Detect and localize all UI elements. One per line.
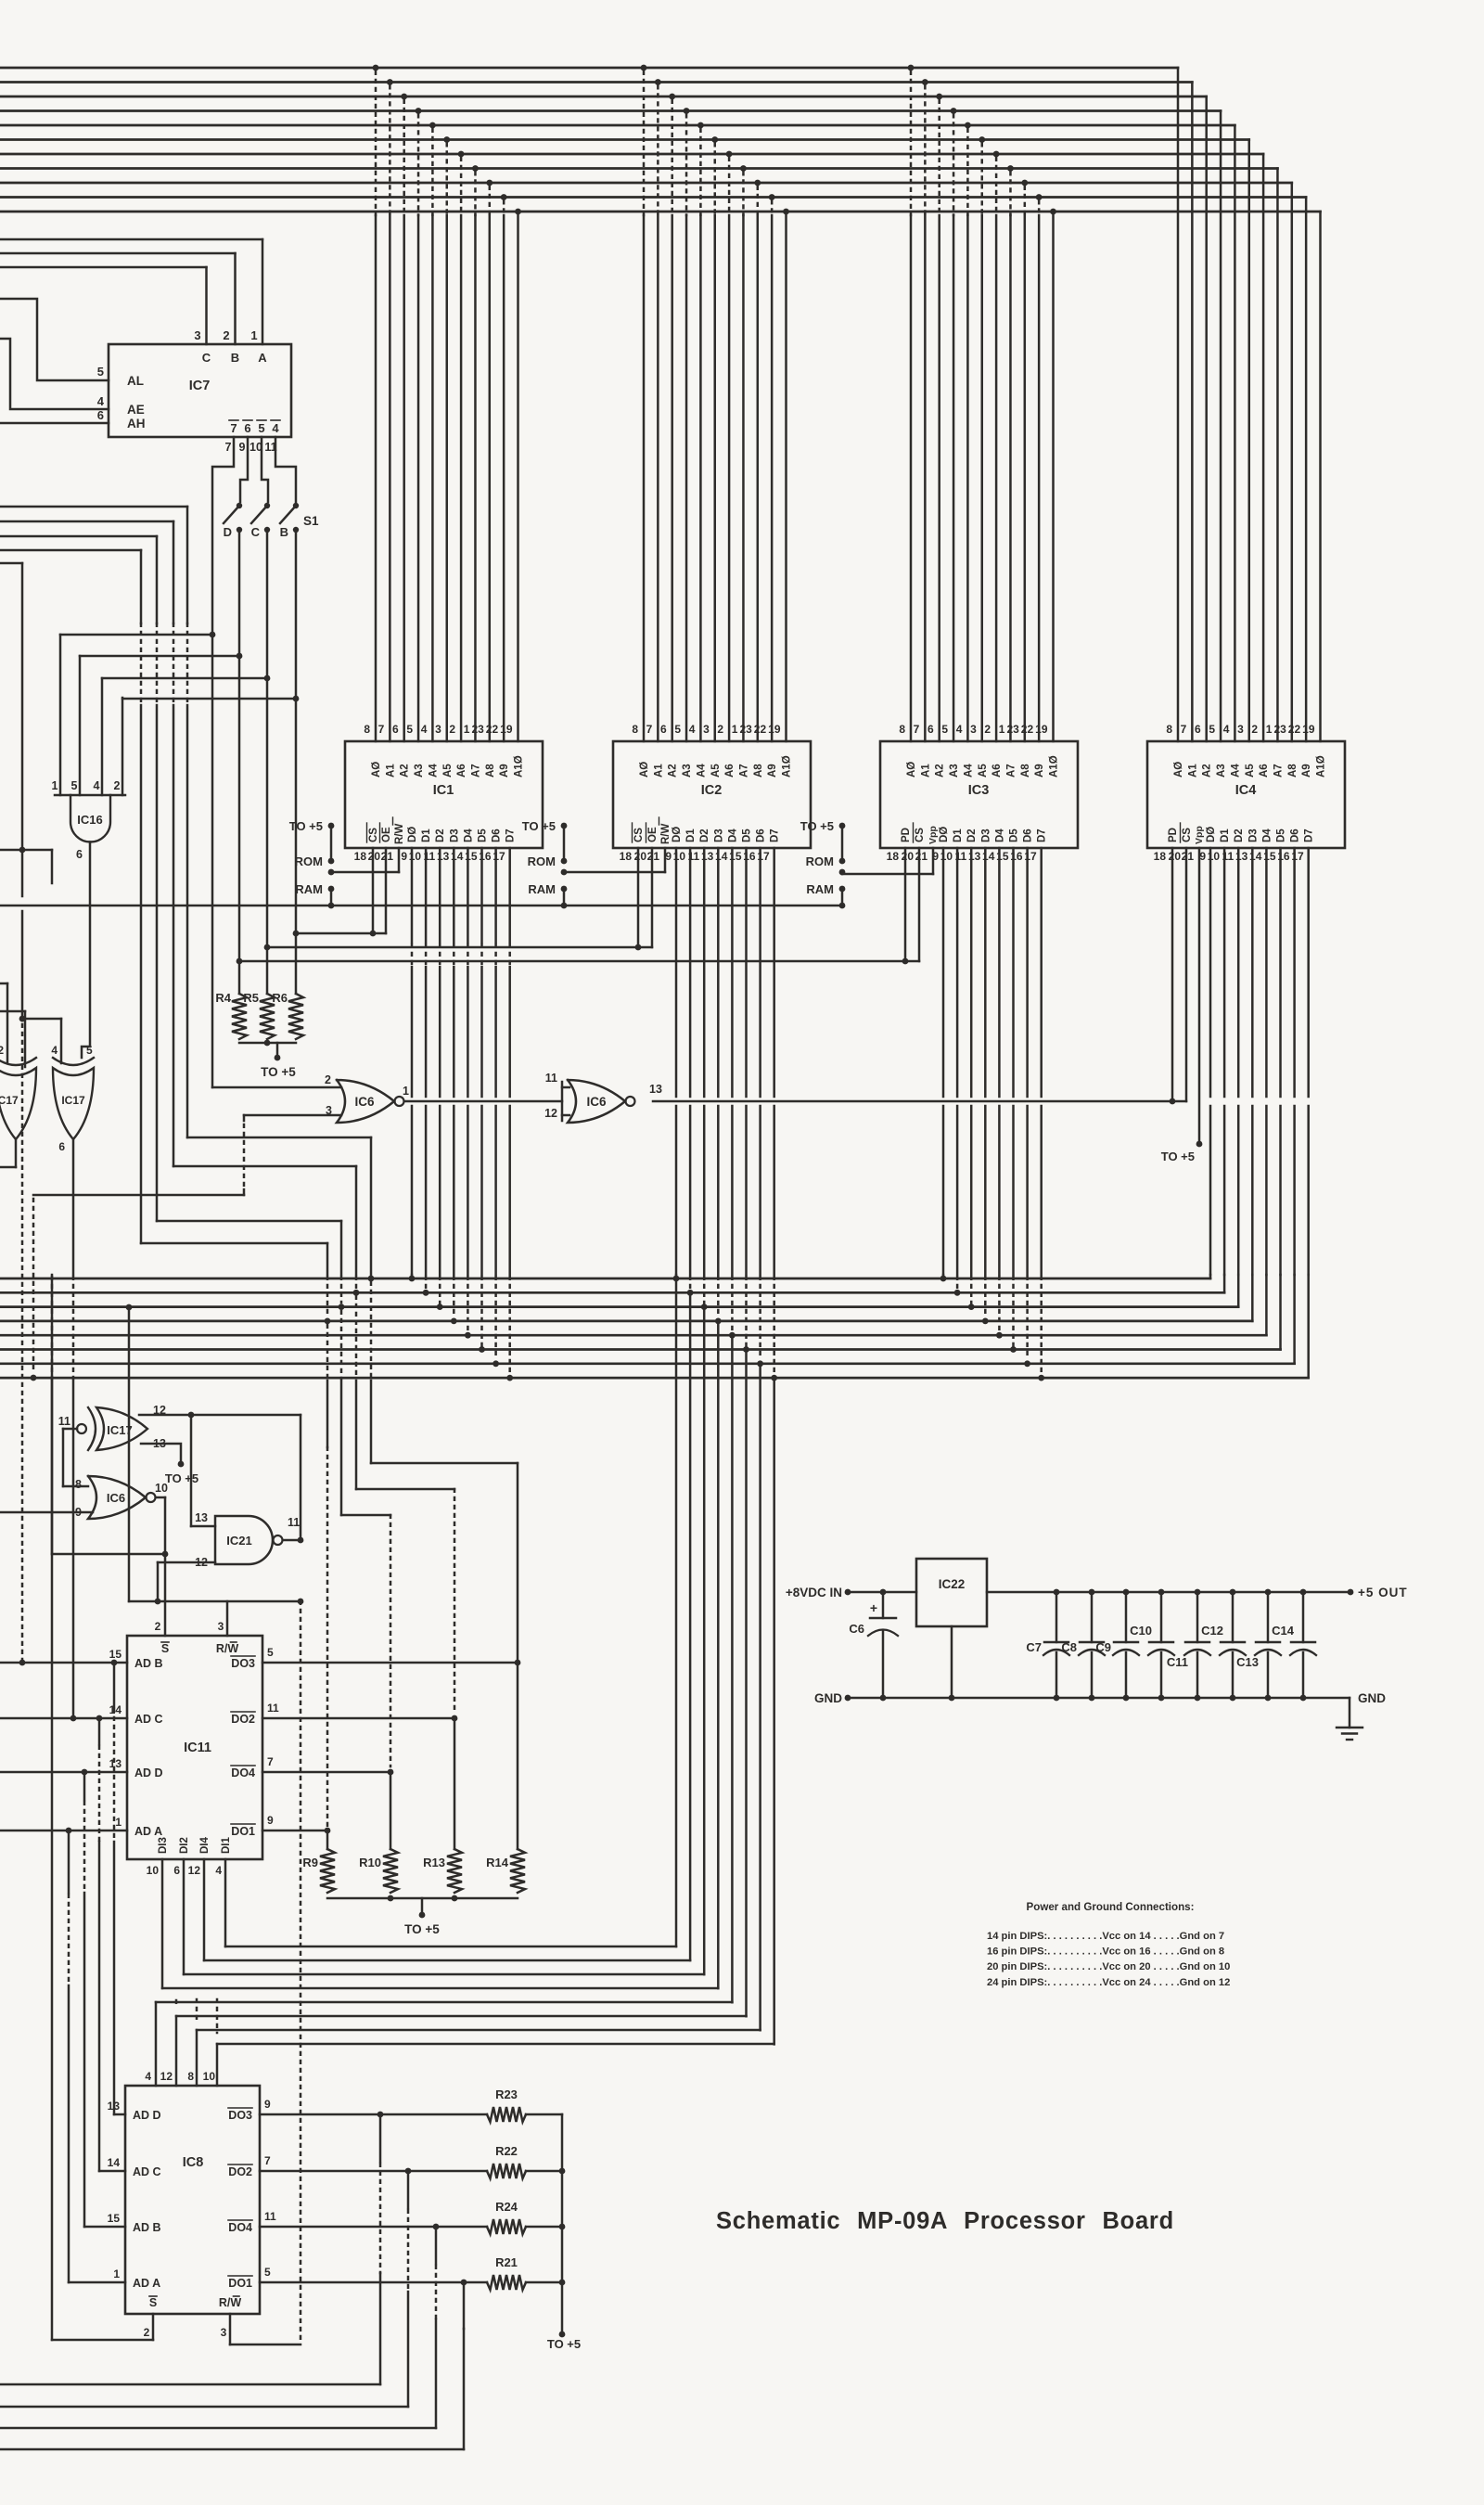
node R5 top [264, 944, 271, 951]
svg-text:D3: D3 [980, 829, 991, 842]
node ROM wire junction [561, 869, 568, 876]
svg-text:5: 5 [264, 2266, 271, 2279]
svg-text:4: 4 [94, 779, 100, 792]
resistor R10 [383, 1849, 398, 1893]
svg-text:RAM: RAM [806, 882, 834, 896]
wire IC21 pin 12 input [158, 1561, 215, 1564]
wire address column A3 to IC1 [417, 215, 420, 741]
wire IC1 CS pin 18 stub [372, 848, 375, 931]
wire switch B output down to R6 pull-up [295, 530, 298, 933]
svg-text:18: 18 [620, 850, 633, 863]
node address bus tap IC3 column A2 [936, 94, 942, 100]
wire address column A7 to IC1 [474, 215, 477, 741]
svg-text:C13: C13 [1236, 1655, 1259, 1669]
node IC1 D2 data bus tap [439, 1277, 441, 1304]
node RAM [561, 886, 568, 893]
wire IC1 D7 column [508, 848, 511, 943]
node DO2 junction [452, 1715, 458, 1722]
wire address column A10 to IC2 [785, 215, 787, 741]
svg-text:A3: A3 [1216, 764, 1227, 777]
wire IC7 pin 9 to switch S1-D [240, 437, 248, 502]
node IC1 D6 data bus tap [494, 1277, 497, 1360]
wire IC21 output node [283, 1539, 301, 1542]
wire data select chain 1 (to R14/DO3) [0, 506, 187, 508]
wire IC3 D2 column [970, 848, 973, 1097]
wire IC7 pin 11 to switch S1-B [275, 437, 296, 502]
wire TO+5 to ROM [563, 826, 566, 861]
node address bus tap IC2 column A1 [655, 79, 661, 85]
svg-text:AD C: AD C [133, 2165, 161, 2178]
wire AD A to IC8 AD A [68, 1831, 70, 1893]
svg-text:1: 1 [999, 723, 1005, 736]
svg-text:7: 7 [230, 421, 237, 435]
node address bus tap IC3 column A5 [979, 136, 985, 143]
svg-text:5: 5 [86, 1044, 93, 1057]
svg-text:DO2: DO2 [231, 1713, 255, 1726]
svg-text:D2: D2 [699, 829, 710, 842]
svg-text:7: 7 [646, 723, 653, 736]
svg-text:A5: A5 [442, 764, 454, 777]
svg-text:D2: D2 [435, 829, 446, 842]
wire IC2 D6 column [759, 848, 761, 1097]
resistor R24 [487, 2219, 526, 2234]
node address bus tap IC2 column A4 [697, 122, 704, 129]
svg-text:D5: D5 [478, 829, 489, 842]
wire address column A10 to IC4 (bus elbow) [1319, 212, 1322, 741]
svg-text:TO +5: TO +5 [800, 819, 834, 833]
wire IC11 DI1 to data line 1 [224, 1859, 227, 1946]
wire IC3 D5 column [1012, 848, 1015, 1097]
svg-text:IC2: IC2 [701, 783, 723, 798]
XOR gate IC17 (left, partially cut) [0, 1068, 36, 1139]
wire data column D1 continues down [689, 1292, 692, 1960]
svg-text:10: 10 [147, 1864, 160, 1877]
node IC2 D1 data bus tap [689, 1277, 692, 1289]
wire IC6 pin 13 output to IC4 select [653, 1100, 1186, 1103]
svg-text:4: 4 [145, 2070, 151, 2083]
wire address bus line A0 [0, 67, 1178, 70]
svg-text:19: 19 [500, 723, 513, 736]
wire ground rail drop [1349, 1698, 1351, 1728]
wire data column D5 continues down [745, 1350, 748, 2017]
svg-text:23: 23 [471, 723, 484, 736]
capacitor C7 [1054, 1589, 1060, 1596]
wire pin 3 net dashed drop left [32, 1199, 35, 1373]
svg-text:D3: D3 [449, 829, 460, 842]
svg-text:AØ: AØ [906, 762, 917, 777]
svg-text:AØ: AØ [371, 762, 382, 777]
wire S tie down to IC8 pin 2 [51, 1275, 54, 1554]
node address bus tap IC1 column A1 [387, 79, 393, 85]
svg-text:1: 1 [52, 779, 58, 792]
svg-text:11: 11 [545, 1072, 557, 1085]
wire IC21 net down to IC8 R/W [300, 1601, 302, 2343]
svg-text:TO +5: TO +5 [261, 1065, 296, 1079]
svg-text:9: 9 [1199, 850, 1206, 863]
node address bus tap IC1 column A4 [429, 122, 436, 129]
svg-text:A8: A8 [1020, 764, 1031, 777]
svg-text:A9: A9 [767, 764, 778, 777]
wire address column A5 to IC3 [981, 215, 984, 741]
wire IC4 D7 column [1307, 848, 1310, 1097]
svg-text:IC4: IC4 [1235, 783, 1257, 798]
svg-text:A5: A5 [1245, 764, 1256, 777]
wire IC3 D0 column [942, 848, 945, 1097]
svg-text:20: 20 [634, 850, 647, 863]
svg-text:C7: C7 [1026, 1640, 1042, 1654]
wire AD C to IC8 AD C [98, 1718, 101, 1744]
svg-text:9: 9 [267, 1814, 274, 1827]
wire address column A6 to IC2 [728, 215, 731, 741]
node address bus tap IC3 column A8 [1021, 180, 1028, 186]
IC IC8 (ROM) [125, 2086, 260, 2314]
AND gate IC16 [55, 794, 125, 797]
capacitor C11 [1195, 1589, 1201, 1596]
wire to IC21 pin 13 [190, 1415, 193, 1526]
wire data bus line D6 [0, 1362, 1295, 1365]
svg-text:DO2: DO2 [228, 2165, 252, 2178]
node [298, 1599, 304, 1605]
wire address bus line A7 [0, 167, 1277, 170]
node IC1 D5 data bus tap [480, 1277, 483, 1346]
svg-text:R21: R21 [495, 2255, 518, 2269]
wire IC2 OE pin 20 stub [651, 848, 654, 947]
svg-text:9: 9 [401, 850, 407, 863]
wire IC11 DI3 to data line 4 [161, 1859, 164, 1988]
node chain2 bus tap [353, 1290, 360, 1296]
wire IC3 PD pin 18 stub [904, 848, 907, 958]
wire address column A8 to IC4 (bus elbow) [1291, 183, 1294, 741]
wire IC7 pin 7 output to IC16 pin 1 net [212, 437, 234, 1087]
wire IC2 D7 column [773, 848, 775, 1097]
wire address column A10 to IC1 [517, 215, 519, 741]
svg-text:22: 22 [486, 723, 499, 736]
wire IC2 D2 column [703, 848, 706, 1097]
svg-text:7: 7 [267, 1755, 274, 1768]
svg-text:R/W: R/W [660, 824, 672, 845]
node RAM [839, 886, 846, 893]
svg-text:A2: A2 [400, 764, 411, 777]
svg-text:IC11: IC11 [184, 1741, 211, 1755]
resistor R23 [487, 2107, 526, 2122]
svg-text:DO4: DO4 [231, 1766, 255, 1779]
resistor R6 [288, 994, 303, 1039]
wire IC11 DO2 output [262, 1717, 454, 1720]
svg-text:D4: D4 [463, 829, 474, 842]
svg-text:7: 7 [225, 441, 232, 454]
svg-text:IC17: IC17 [0, 1094, 19, 1107]
node IC3 D0 data bus tap [942, 1275, 945, 1277]
ground symbol [1337, 1727, 1362, 1728]
wire IC11 DI2 to data line 3 [183, 1859, 185, 1974]
wire IC1 R/W pin 21 stub [398, 848, 401, 872]
svg-text:7: 7 [264, 2154, 271, 2167]
wire address column A5 to IC2 [714, 215, 717, 741]
svg-text:TO +5: TO +5 [289, 819, 323, 833]
wire IC16 pin 2 net [122, 698, 296, 700]
svg-text:C12: C12 [1201, 1624, 1223, 1638]
svg-text:19: 19 [768, 723, 781, 736]
svg-text:AL: AL [127, 374, 144, 388]
node address bus tap IC1 column A6 [458, 151, 465, 158]
node +8VDC IN [845, 1589, 851, 1596]
wire IC1 D0 column [411, 848, 414, 943]
svg-text:DO4: DO4 [228, 2221, 252, 2234]
wire address column A4 to IC1 [431, 215, 434, 741]
wire IC3 D1 column [956, 848, 959, 1097]
svg-text:A1Ø: A1Ø [782, 755, 793, 777]
wire IC17 pin 13 to TO +5 [141, 1444, 181, 1462]
node IC2 D4 data bus tap [731, 1277, 734, 1331]
svg-text:1: 1 [732, 723, 738, 736]
wire address column A7 to IC3 [1009, 215, 1012, 741]
svg-text:D7: D7 [505, 829, 517, 842]
wire IC1 D1 column [425, 848, 428, 943]
wire data column D2 continues down [703, 1307, 706, 1975]
svg-text:C: C [202, 351, 211, 365]
wire IC3 ROM wire [842, 873, 933, 876]
svg-text:R10: R10 [359, 1856, 381, 1869]
svg-text:A7: A7 [1273, 764, 1284, 777]
wire data column D6 continues down [759, 1364, 761, 2031]
wire IC1 D3 column [453, 848, 455, 943]
IC IC7 (address decoder) [109, 344, 291, 437]
svg-text:A8: A8 [753, 764, 764, 777]
svg-text:R14: R14 [486, 1856, 509, 1869]
svg-text:D: D [224, 525, 232, 539]
svg-text:12: 12 [160, 2070, 173, 2083]
svg-text:16 pin DIPS:. . . . . . . . .: 16 pin DIPS:. . . . . . . . . .Vcc on 16… [987, 1946, 1224, 1958]
svg-text:5: 5 [941, 723, 948, 736]
svg-text:A1Ø: A1Ø [1049, 755, 1060, 777]
svg-text:D1: D1 [1220, 829, 1231, 842]
svg-text:R9: R9 [302, 1856, 318, 1869]
wire data column D4 continues down [731, 1335, 734, 2002]
node IC3 D7 data bus tap [1040, 1277, 1043, 1374]
wire IC4 D5 column [1279, 848, 1282, 1097]
svg-text:DØ: DØ [407, 827, 418, 842]
wire IC1 OE pin 20 stub [385, 848, 388, 933]
wire IC2 R/W pin 21 stub [664, 848, 667, 872]
node DO3 junction [515, 1660, 521, 1666]
svg-text:AH: AH [127, 417, 146, 430]
capacitor C14 [1300, 1589, 1307, 1596]
svg-text:20: 20 [368, 850, 381, 863]
node address bus tap IC1 column A9 [501, 194, 507, 200]
svg-text:Power and Ground Connections:: Power and Ground Connections: [1027, 1901, 1195, 1913]
svg-text:DI2: DI2 [179, 1837, 190, 1854]
svg-text:OE: OE [381, 827, 392, 842]
wire IC7 pin AE input [0, 339, 109, 409]
svg-text:D2: D2 [1234, 829, 1245, 842]
svg-text:TO +5: TO +5 [547, 2337, 581, 2351]
svg-text:DI3: DI3 [158, 1837, 169, 1854]
svg-text:A4: A4 [696, 764, 707, 777]
wire DO3 feedback to bottom [379, 2114, 382, 2162]
node address bus tap IC1 column A0 [373, 65, 379, 71]
svg-text:14 pin DIPS:. . . . . . . . .: 14 pin DIPS:. . . . . . . . . .Vcc on 14… [987, 1931, 1224, 1942]
wire address column A8 to IC1 [489, 215, 492, 741]
wire address column A5 to IC1 [446, 215, 449, 741]
svg-text:1: 1 [403, 1085, 409, 1098]
svg-text:8: 8 [364, 723, 370, 736]
svg-text:IC6: IC6 [107, 1491, 125, 1505]
svg-text:A1Ø: A1Ø [514, 755, 525, 777]
svg-text:D6: D6 [756, 829, 767, 842]
node address bus tap IC1 column A5 [443, 136, 450, 143]
wire address column A3 to IC4 (bus elbow) [1220, 111, 1222, 742]
IC IC3 (memory) [880, 741, 1078, 848]
wire address column A8 to IC3 [1024, 215, 1027, 741]
svg-text:4: 4 [97, 394, 105, 408]
svg-text:AD A: AD A [134, 1825, 162, 1838]
svg-text:21: 21 [915, 850, 928, 863]
svg-text:A9: A9 [499, 764, 510, 777]
wire address column A8 to IC2 [757, 215, 760, 741]
node IC2 D5 data bus tap [745, 1277, 748, 1346]
node address bus tap IC1 column A10 [515, 209, 521, 215]
wire address column A1 to IC2 [657, 215, 659, 741]
svg-text:Vpp: Vpp [927, 826, 939, 844]
wire IC6 pin 9 input [0, 1511, 93, 1514]
wire IC4 D3 column [1251, 848, 1254, 1097]
svg-text:R/W: R/W [219, 2296, 242, 2309]
wire pin 3 net dashed drop [243, 1124, 246, 1189]
svg-text:3: 3 [435, 723, 441, 736]
svg-text:1: 1 [115, 1816, 122, 1829]
node IC2 D7 data bus tap [773, 1277, 775, 1374]
wire IC4 D1 column [1223, 848, 1226, 1097]
wire IC6 pin 2 input [212, 1086, 341, 1089]
wire IC8 pin 10 to data line 8 [216, 2044, 219, 2086]
svg-text:A3: A3 [414, 764, 425, 777]
resistor R13 [447, 1849, 462, 1893]
svg-text:A9: A9 [1301, 764, 1312, 777]
wire left-edge entry to x24 drop [0, 562, 22, 565]
wire IC2 ROM wire [564, 871, 665, 874]
wire IC4 D6 column [1293, 848, 1296, 1097]
wire IC8 DO2 to R22 [260, 2170, 487, 2173]
wire IC17 pin 4 input [60, 1019, 63, 1063]
svg-text:ROM: ROM [528, 854, 556, 868]
wire address column A9 to IC4 (bus elbow) [1305, 198, 1308, 742]
svg-text:4: 4 [956, 723, 963, 736]
wire address bus line A6 [0, 153, 1263, 156]
wire address bus line A2 [0, 96, 1207, 98]
svg-text:A2: A2 [668, 764, 679, 777]
node to IC21 pin 13 [188, 1412, 195, 1419]
wire address column A4 to IC3 [966, 215, 969, 741]
wire IC11 AD C line [0, 1717, 127, 1720]
node address bus tap IC2 column A7 [740, 165, 747, 172]
svg-text:R23: R23 [495, 2087, 518, 2101]
svg-text:14: 14 [108, 2156, 121, 2169]
svg-text:6: 6 [244, 421, 250, 435]
svg-text:13: 13 [109, 1757, 122, 1770]
svg-text:R/W: R/W [216, 1642, 239, 1655]
svg-text:D4: D4 [727, 829, 738, 842]
wire IC3 D6 column [1026, 848, 1029, 1097]
node DO4 junction [388, 1769, 394, 1776]
svg-text:11: 11 [288, 1516, 300, 1529]
svg-text:IC21: IC21 [226, 1534, 251, 1548]
node IC1 D3 data bus tap [453, 1277, 455, 1317]
wire address bus line A3 [0, 109, 1221, 112]
wire +5 output line [987, 1591, 1350, 1594]
svg-text:A6: A6 [724, 764, 736, 777]
svg-text:1: 1 [250, 328, 257, 342]
svg-text:AD A: AD A [133, 2277, 160, 2290]
svg-text:11: 11 [267, 1702, 279, 1715]
wire S tie line [52, 1553, 165, 1556]
svg-text:TO +5: TO +5 [404, 1922, 440, 1936]
svg-text:21: 21 [647, 850, 660, 863]
capacitor C10 [1158, 1589, 1165, 1596]
svg-text:DI4: DI4 [199, 1837, 211, 1855]
svg-text:2: 2 [325, 1073, 331, 1086]
wire IC2 D3 column [717, 848, 720, 1097]
wire TO+5 to ROM [330, 826, 333, 861]
svg-text:IC16: IC16 [77, 813, 102, 827]
node ROM [561, 858, 568, 865]
wire IC11 DO1 output [262, 1830, 327, 1832]
svg-text:DO1: DO1 [228, 2277, 252, 2290]
svg-text:4: 4 [51, 1044, 58, 1057]
svg-text:22: 22 [754, 723, 767, 736]
wire DO2 feedback to bottom [407, 2171, 410, 2208]
svg-text:ROM: ROM [806, 854, 834, 868]
wire IC3 D3 column [984, 848, 987, 1097]
svg-text:TO +5: TO +5 [522, 819, 556, 833]
wire address bus line A8 [0, 182, 1292, 185]
wire IC2 CS pin 18 stub [637, 848, 640, 944]
svg-text:IC8: IC8 [183, 2155, 204, 2170]
svg-text:AØ: AØ [639, 762, 650, 777]
svg-text:5: 5 [267, 1646, 274, 1659]
svg-text:A8: A8 [485, 764, 496, 777]
svg-text:19: 19 [1035, 723, 1048, 736]
wire IC8 pin 8 to data line 7 [196, 2030, 198, 2086]
svg-text:6: 6 [76, 848, 83, 861]
wire DO1 feedback to bottom [463, 2282, 466, 2329]
svg-text:D4: D4 [994, 829, 1005, 842]
svg-text:6: 6 [392, 723, 399, 736]
svg-text:A2: A2 [1202, 764, 1213, 777]
resistor R21 [487, 2275, 526, 2290]
wire IC11 AD D line [0, 1771, 127, 1774]
svg-text:2: 2 [155, 1620, 161, 1633]
wire IC4 PD pin 18 stub [1171, 848, 1174, 1098]
svg-text:A4: A4 [428, 764, 439, 777]
resistor R22 [487, 2164, 526, 2178]
svg-text:2: 2 [0, 1044, 4, 1057]
node IC2 D0 data bus tap [675, 1275, 678, 1277]
node TO +5 tap [328, 823, 335, 829]
XOR gate IC17 (pins 4,5,6) [53, 1068, 94, 1139]
node R6 top [293, 931, 300, 937]
node +5 OUT [1348, 1589, 1354, 1596]
node address bus tap IC3 column A6 [993, 151, 1000, 158]
svg-text:13: 13 [649, 1083, 662, 1096]
wire data bus line D3 [0, 1320, 1252, 1323]
node address bus tap IC3 column A7 [1007, 165, 1014, 172]
wire address column A2 to IC2 [671, 215, 673, 741]
wire address column A0 to IC1 [375, 215, 377, 741]
svg-text:6: 6 [173, 1864, 180, 1877]
svg-text:10: 10 [155, 1482, 168, 1495]
wire address column A6 to IC4 (bus elbow) [1262, 154, 1265, 741]
svg-text:A1: A1 [653, 764, 664, 777]
